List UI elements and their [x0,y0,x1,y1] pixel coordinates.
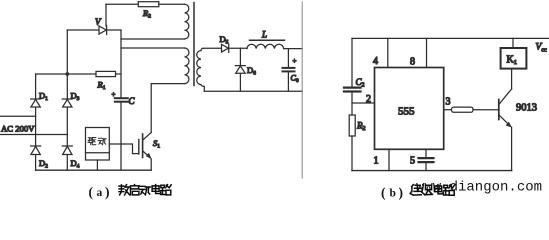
wire drive box to S1 gate [109,144,138,154]
wire centre node vertical [120,30,122,98]
wire bridge left branch [35,74,37,170]
svg-text:9013: 9013 [516,103,537,114]
capacitor C2 [344,77,365,92]
transistor 9013 [499,69,537,171]
diode D3 [62,91,79,108]
svg-text:5: 5 [410,156,415,167]
wire output bottom rail [204,90,302,92]
wire K1 to Vcc rail [512,38,514,48]
wire DC positive rail [36,73,121,75]
svg-text:): ) [105,185,110,200]
transformer T1 core [193,3,195,86]
resistor R2 [138,2,159,20]
svg-text:4: 4 [373,56,378,67]
svg-text:(: ( [381,185,386,200]
wire left branch (b) [351,38,353,170]
resistor R1 [96,71,116,91]
svg-text:AC 200V: AC 200V [1,124,35,134]
svg-text:2: 2 [366,94,371,105]
transistor S1 (IGBT) [139,133,160,171]
capacitor C0 [283,49,299,92]
wire pin 2 [352,102,375,104]
svg-text:1: 1 [374,156,379,167]
wire thyristor cathode to node [107,29,121,31]
wire top loop to R2 [106,3,138,5]
svg-text:L: L [261,30,267,40]
diode D5 [220,34,229,52]
wire AC input line 1 [0,115,36,117]
thyristor V [95,4,107,34]
wire pin 5 stub [425,149,427,157]
wire R2 to primary winding 1 [159,3,185,5]
wire bottom rail (a) [36,169,152,171]
wire thyristor anode feed [67,29,99,31]
wire pin 8 stub [426,38,428,67]
IC 555 box [375,68,444,150]
wire AC input line 2 [0,134,67,136]
relay K1 box [501,48,527,69]
wire resistor to base [473,109,499,111]
wire D5 to inductor [229,47,247,49]
diode D4 [62,146,79,170]
svg-text:C: C [129,96,136,106]
capacitor on pin 5 [419,158,434,171]
diode D6 [235,65,256,77]
transformer T1 primary winding 1 [185,4,189,39]
wire output vertical bus [301,2,303,178]
diode D1 [31,91,49,108]
wire inductor to output [284,48,303,50]
svg-text:+: + [112,91,116,99]
svg-text:3: 3 [446,97,451,108]
diode D2 [31,146,49,170]
label 驱动 (drive) [88,138,106,145]
transformer T1 primary winding 2 [185,48,189,84]
caption (b) delay circuit [381,185,455,200]
wire Vcc top rail (b) [352,37,549,39]
svg-text:): ) [399,185,404,200]
inductor L [247,44,284,48]
wire primary winding 1 bottom to node [121,38,185,40]
wire node to primary winding 2 [121,47,185,49]
svg-text:a: a [97,187,103,199]
drive box (驱动) [86,128,110,161]
resistor base (pin3 to 9013) [452,107,474,112]
capacitor C (filter) [112,91,136,171]
svg-text:555: 555 [398,106,415,118]
node junction dot on positive rail [65,72,69,76]
wire bottom rail (b) [352,170,512,172]
wire primary winding 2 to S1 collector [151,84,184,133]
wire drive box to bottom rail [96,160,98,170]
wire freewheel branch [239,48,241,91]
caption (a) soft-start circuit [89,185,172,200]
svg-text:+: + [293,57,297,65]
wire secondary top to D5 [203,47,221,49]
svg-text:b: b [390,188,396,200]
svg-text:(: ( [89,185,94,200]
wire pin 1 stub [388,149,390,170]
inductor L core bar [250,39,285,41]
transformer T1 secondary winding [197,48,205,91]
resistor R2 (b) [349,115,365,136]
wire bridge right branch [66,30,68,170]
svg-text:8: 8 [410,57,415,68]
wire pin 3 [444,109,452,111]
wire pin 4 stub [387,38,389,67]
